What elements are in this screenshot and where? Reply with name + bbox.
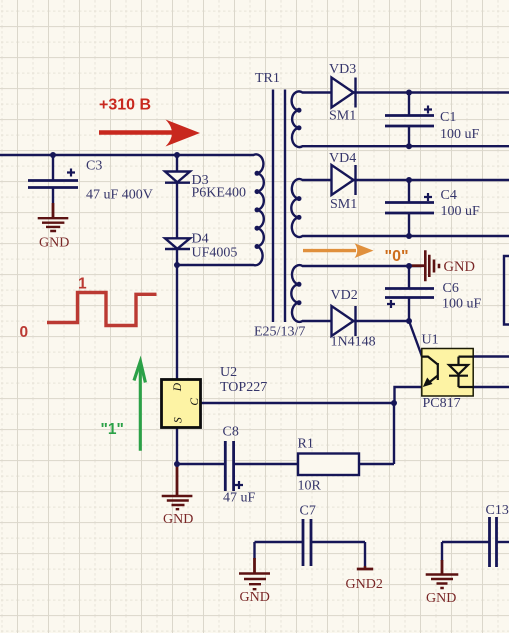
svg-text:U2: U2: [220, 365, 237, 380]
svg-text:PC817: PC817: [423, 396, 461, 411]
svg-text:TR1: TR1: [255, 71, 280, 86]
svg-text:U1: U1: [422, 333, 439, 348]
svg-text:C4: C4: [441, 188, 457, 203]
svg-text:SM1: SM1: [330, 197, 357, 212]
svg-text:GND: GND: [39, 236, 69, 251]
svg-text:VD4: VD4: [329, 151, 356, 166]
svg-text:GND: GND: [240, 590, 270, 605]
svg-text:1: 1: [78, 276, 87, 293]
svg-text:C3: C3: [86, 159, 102, 174]
svg-text:D4: D4: [192, 232, 209, 247]
svg-text:VD3: VD3: [329, 62, 356, 77]
svg-text:C6: C6: [443, 281, 459, 296]
svg-text:+310 B: +310 B: [99, 97, 151, 114]
svg-text:100 uF: 100 uF: [440, 127, 480, 142]
svg-text:P6KE400: P6KE400: [192, 186, 246, 201]
svg-text:C1: C1: [440, 110, 456, 125]
svg-text:C8: C8: [223, 425, 239, 440]
svg-text:TOP227: TOP227: [220, 380, 267, 395]
svg-text:C13: C13: [486, 503, 509, 518]
svg-text:R1: R1: [298, 437, 314, 452]
svg-text:100 uF: 100 uF: [441, 204, 481, 219]
svg-text:GND: GND: [426, 591, 456, 606]
svg-text:E25/13/7: E25/13/7: [254, 325, 305, 340]
svg-text:"0": "0": [385, 248, 409, 265]
svg-text:D: D: [172, 382, 184, 392]
svg-text:VD2: VD2: [331, 288, 358, 303]
svg-text:0: 0: [20, 324, 29, 341]
svg-text:GND2: GND2: [346, 577, 383, 592]
svg-text:47 uF 400V: 47 uF 400V: [86, 188, 153, 203]
svg-text:UF4005: UF4005: [192, 246, 238, 261]
svg-text:S: S: [172, 417, 184, 423]
svg-text:GND: GND: [163, 512, 193, 527]
svg-text:47 uF: 47 uF: [223, 491, 256, 506]
svg-text:SM1: SM1: [329, 109, 356, 124]
svg-text:100 uF: 100 uF: [442, 297, 482, 312]
svg-text:10R: 10R: [298, 479, 322, 494]
svg-text:C: C: [189, 398, 201, 406]
svg-text:"1": "1": [101, 421, 124, 438]
svg-text:GND: GND: [444, 259, 475, 275]
svg-text:C7: C7: [300, 504, 316, 519]
svg-text:1N4148: 1N4148: [331, 335, 376, 350]
